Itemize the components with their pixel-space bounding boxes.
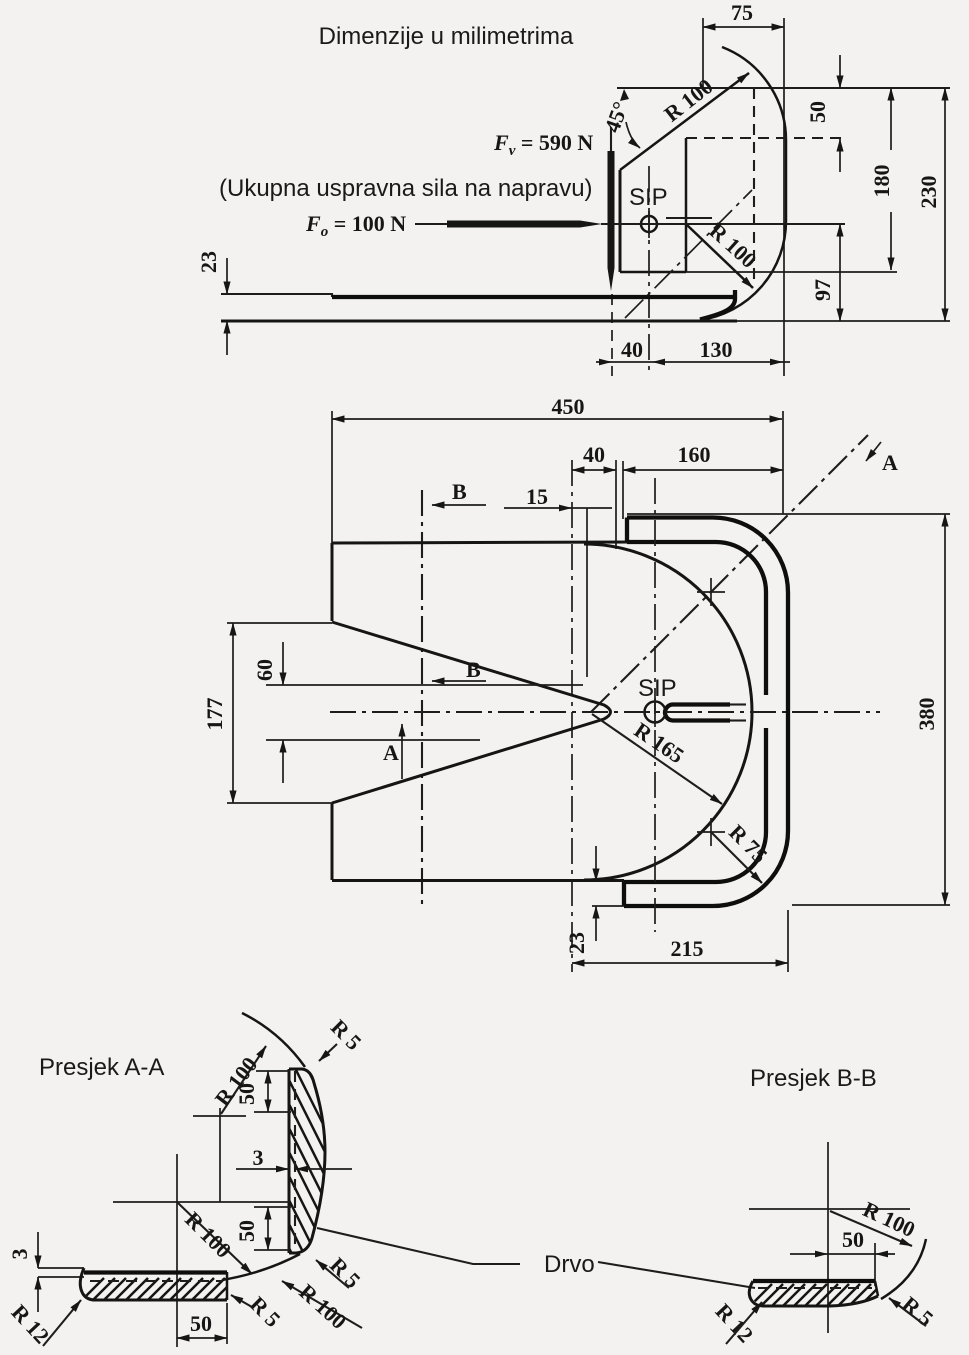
svg-text:3: 3 [7, 1249, 32, 1260]
seat plank top thick line [332, 295, 735, 299]
svg-text:Presjek A-A: Presjek A-A [39, 1054, 164, 1081]
extension x=332 [331, 411, 333, 543]
svg-text:23: 23 [564, 932, 589, 954]
svg-text:75: 75 [731, 0, 753, 25]
SIP horizontal line [601, 223, 845, 225]
main top edge [332, 542, 640, 543]
svg-text:R 5: R 5 [897, 1291, 938, 1331]
45deg leader arrow [626, 122, 640, 148]
lens hatching [196, 1062, 476, 1262]
outer profile arcs: R100 top, straight, R100 bottom [700, 47, 786, 320]
svg-text:230: 230 [916, 176, 941, 209]
R100 center cross bottom [113, 1201, 290, 1203]
force arrow Fv [610, 127, 612, 152]
svg-text:R 5: R 5 [245, 1291, 286, 1332]
svg-text:180: 180 [869, 165, 894, 198]
R75 leader [711, 832, 762, 883]
svg-text:380: 380 [914, 698, 939, 731]
band outer edge [624, 518, 788, 907]
svg-text:60: 60 [252, 659, 277, 681]
svg-text:450: 450 [552, 394, 585, 419]
center dash-dot x=572 [571, 460, 573, 972]
B-B bar bottom [763, 1296, 878, 1306]
section line B-B [421, 490, 423, 905]
centerlines [827, 1142, 829, 1333]
R75 center cross bottom [697, 818, 725, 846]
SIP vertical dash-dot plan [654, 478, 656, 932]
Fv dashed continuation [611, 294, 613, 376]
left edge segments [331, 543, 334, 621]
R165 leader [592, 714, 722, 804]
SIP circle [641, 216, 657, 232]
svg-text:215: 215 [671, 936, 704, 961]
plank bottom [95, 1299, 227, 1302]
band inner edge bottom [624, 728, 766, 882]
R75 center cross top [697, 578, 725, 606]
svg-text:R 12: R 12 [711, 1298, 759, 1347]
vertical x=587 [586, 508, 588, 677]
svg-text:130: 130 [700, 337, 733, 362]
B-B outer arc [881, 1239, 926, 1299]
handle edge seen from side [666, 217, 712, 219]
plank thin double lines [38, 1267, 84, 1269]
svg-text:R 100: R 100 [180, 1207, 236, 1263]
B-B left cap R12 [749, 1281, 763, 1306]
svg-text:Dimenzije u milimetrima: Dimenzije u milimetrima [319, 23, 574, 50]
extension of 180 dim [686, 271, 897, 273]
B-B bar top thick [753, 1279, 875, 1283]
body bottom edge [620, 271, 686, 274]
dashed horizontal y=138 [686, 137, 848, 139]
dashed vertical x=754 [753, 88, 755, 283]
svg-text:97: 97 [810, 279, 835, 301]
svg-text:50: 50 [190, 1311, 212, 1336]
horizontal centerline plan [330, 711, 880, 713]
plank hatching [78, 1278, 258, 1304]
body inner vertical x=686 [685, 138, 688, 272]
tongue wedge [332, 622, 611, 803]
notch lip extensions [227, 622, 332, 624]
svg-text:Presjek B-B: Presjek B-B [750, 1065, 877, 1092]
svg-text:177: 177 [202, 698, 227, 731]
connecting surface arc [222, 1254, 300, 1280]
extension x=783 [782, 411, 784, 514]
R100 lower leader [687, 225, 753, 288]
svg-text:R 100: R 100 [704, 218, 761, 273]
svg-text:Fv = 590 N: Fv = 590 N [493, 130, 593, 159]
svg-text:A: A [882, 450, 898, 475]
45deg angle arrow on horizontal [620, 89, 629, 101]
big top arc [242, 1013, 305, 1067]
svg-text:Fo = 100 N: Fo = 100 N [305, 211, 406, 240]
svg-text:B: B [466, 657, 481, 682]
SIP center line vertical dash-dot [648, 166, 650, 376]
band end caps [625, 518, 629, 543]
extension line x=784 [783, 18, 785, 376]
R100 top leader [221, 1046, 266, 1114]
svg-text:SIP: SIP [629, 184, 668, 211]
svg-text:SIP: SIP [638, 675, 677, 702]
svg-text:23: 23 [196, 251, 221, 273]
B-B bar hatching [746, 1284, 904, 1310]
R100 leader B-B [830, 1211, 912, 1246]
bottom extension to 230 dim [737, 320, 950, 322]
main bottom edge [332, 879, 624, 882]
svg-text:50: 50 [805, 101, 830, 123]
seat plank inner thick arc [700, 290, 735, 320]
extension line x=703 [702, 18, 704, 88]
plank right end [226, 1272, 229, 1300]
svg-text:A: A [383, 740, 399, 765]
chamfer / R100 leader diagonal [620, 73, 749, 170]
body left edge [619, 170, 622, 272]
section trace A-A dash-dot in side view [625, 190, 752, 318]
plank top thick [84, 1270, 227, 1274]
svg-text:15: 15 [526, 484, 548, 509]
svg-text:B: B [452, 479, 467, 504]
seat plank bottom line [221, 320, 737, 323]
handle slot [665, 705, 673, 721]
seat plank top thin line [221, 294, 332, 297]
solid vertical x=616 [615, 460, 617, 549]
svg-text:160: 160 [678, 442, 711, 467]
R100 center cross top [193, 1115, 246, 1117]
lens left edge [288, 1069, 291, 1253]
SIP circle plan [645, 702, 666, 723]
B-B dashed ply [758, 1287, 872, 1289]
section line A-A dash-dot [591, 435, 868, 712]
svg-text:3: 3 [253, 1145, 264, 1170]
R165 seat ring arc [584, 544, 752, 880]
60 extension lines [266, 684, 583, 686]
svg-text:(Ukupna uspravna sila na napra: (Ukupna uspravna sila na napravu) [219, 175, 593, 202]
top horizontal line y=88 [617, 87, 950, 89]
plank dashed ply [90, 1280, 222, 1282]
lens dashed ply line [294, 1071, 296, 1251]
band inner edge top [627, 542, 766, 695]
lens outline [289, 1069, 325, 1253]
svg-text:40: 40 [621, 337, 643, 362]
svg-text:40: 40 [583, 442, 605, 467]
R100 far-bottom leader [282, 1281, 362, 1328]
svg-text:50: 50 [842, 1227, 864, 1252]
plank left cap R12 [80, 1268, 95, 1300]
B-B right end [875, 1281, 878, 1296]
svg-text:Drvo: Drvo [544, 1251, 595, 1278]
svg-text:50: 50 [234, 1220, 259, 1242]
R100 bottom-left leader [178, 1203, 252, 1274]
force arrow Fo [415, 223, 448, 225]
